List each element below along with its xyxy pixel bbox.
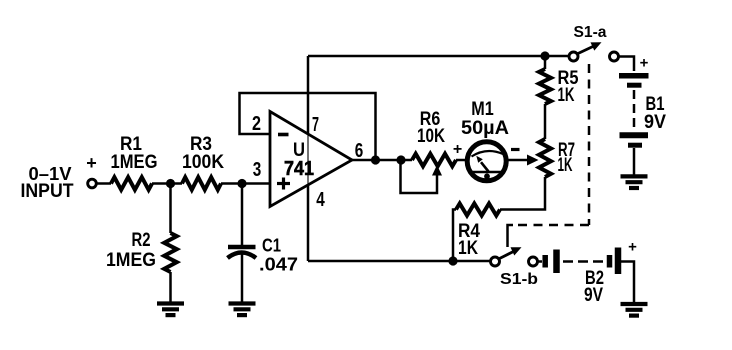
node junction R3/C1/pin3 bbox=[237, 179, 246, 188]
wire pin 4 down bbox=[307, 185, 310, 261]
svg-text:+: + bbox=[453, 141, 462, 158]
op-amp plus input mark bbox=[277, 178, 290, 190]
wire input terminal to R1 bbox=[97, 182, 111, 185]
svg-text:10K: 10K bbox=[417, 126, 445, 147]
wire pin7/pin4 through body bbox=[307, 134, 309, 184]
ground under B2 bbox=[621, 304, 648, 316]
svg-text:+: + bbox=[86, 153, 97, 173]
svg-text:M1: M1 bbox=[471, 99, 494, 120]
label R7 1K bbox=[558, 140, 576, 176]
ground under R2 bbox=[157, 304, 184, 316]
node bottom rail / R4 bbox=[448, 256, 457, 265]
ground under B1 bbox=[621, 176, 648, 188]
svg-text:1K: 1K bbox=[458, 238, 478, 259]
wire pin 7 to supply rail bbox=[307, 56, 310, 133]
wire C1 to ground bbox=[241, 254, 244, 303]
svg-text:.047: .047 bbox=[259, 255, 298, 275]
svg-text:S1-a: S1-a bbox=[574, 24, 607, 41]
label R2 1MEG bbox=[106, 230, 156, 271]
svg-text:1K: 1K bbox=[558, 155, 573, 176]
linkage dashed horizontal bbox=[512, 224, 589, 227]
battery B1 bbox=[619, 76, 649, 145]
wire R7 to R4 bbox=[500, 177, 545, 210]
wire R6 bypass loop bbox=[401, 160, 438, 193]
svg-text:R2: R2 bbox=[132, 230, 151, 251]
label R4 1K bbox=[458, 221, 480, 259]
svg-text:1MEG: 1MEG bbox=[111, 152, 158, 173]
wire op-amp output bbox=[352, 159, 412, 162]
capacitor C1 bbox=[228, 247, 257, 258]
input label 0-1V INPUT bbox=[21, 164, 74, 202]
meter M1 polarity minus bbox=[511, 148, 520, 151]
battery B2 bbox=[545, 248, 618, 275]
wire B1 to ground bbox=[633, 148, 636, 175]
wire R4 to bottom rail bbox=[453, 210, 456, 262]
wire R6 to meter bbox=[456, 159, 466, 162]
svg-text:+: + bbox=[628, 239, 637, 256]
svg-text:741: 741 bbox=[284, 158, 314, 180]
wire R2 to ground bbox=[169, 272, 172, 303]
label R1 1MEG bbox=[111, 134, 158, 173]
wire R3 to op-amp pin 3 bbox=[221, 182, 270, 185]
resistor R4 bbox=[456, 204, 500, 216]
svg-text:100K: 100K bbox=[182, 152, 224, 173]
svg-text:1K: 1K bbox=[558, 85, 575, 106]
meter M1 body bbox=[467, 142, 506, 181]
wire R1 to R3 bbox=[152, 182, 182, 185]
node feedback junction bbox=[371, 155, 380, 164]
wire bottom rail bbox=[308, 260, 490, 263]
node supply rail / R5 bbox=[540, 51, 549, 60]
R7 wiper arrow bbox=[527, 155, 539, 166]
wire S1-a to B1 bbox=[620, 57, 635, 72]
label C1 .047 bbox=[259, 236, 298, 275]
wire node to C1 bbox=[241, 184, 244, 247]
wire rail to R5 bbox=[544, 56, 547, 69]
input terminal bbox=[88, 179, 97, 188]
svg-text:3: 3 bbox=[253, 159, 262, 181]
ground under C1 bbox=[229, 304, 256, 316]
label M1 50uA bbox=[461, 99, 509, 139]
svg-text:50µA: 50µA bbox=[461, 118, 509, 139]
label B2 9V bbox=[584, 268, 604, 306]
resistor R5 bbox=[539, 69, 551, 104]
op-amp U1 741 triangle bbox=[270, 112, 352, 207]
node junction R1/R2/R3 bbox=[166, 179, 175, 188]
switch S1-b bbox=[491, 247, 538, 266]
node R6 bypass junction bbox=[396, 155, 405, 164]
wire S1-b to B2 bbox=[539, 260, 543, 263]
label R5 1K bbox=[558, 68, 579, 106]
wire node to R2 bbox=[169, 184, 172, 234]
svg-text:S1-b: S1-b bbox=[500, 271, 538, 288]
resistor R1 bbox=[111, 177, 152, 190]
wire pin 2 feedback loop from output bbox=[240, 93, 376, 160]
rheostat R6 bbox=[412, 154, 456, 167]
linkage dashed S1-a vertical bbox=[588, 64, 591, 225]
svg-text:4: 4 bbox=[316, 189, 325, 211]
wire top supply rail to S1-a bbox=[308, 55, 568, 58]
svg-text:INPUT: INPUT bbox=[21, 181, 74, 202]
svg-text:1MEG: 1MEG bbox=[106, 250, 156, 271]
wire B2 to ground bbox=[621, 262, 634, 304]
svg-text:9V: 9V bbox=[644, 112, 666, 133]
label R3 100K bbox=[182, 134, 224, 173]
svg-text:9V: 9V bbox=[584, 285, 603, 306]
R6 wiper arrow bbox=[432, 165, 442, 176]
wire R5 to R7 bbox=[544, 104, 547, 139]
svg-text:7: 7 bbox=[312, 114, 319, 136]
label B1 9V bbox=[644, 94, 666, 133]
svg-text:+: + bbox=[640, 55, 649, 72]
linkage elbow to S1-b bbox=[508, 225, 514, 247]
wire meter to R7 wiper bbox=[508, 159, 528, 162]
op-amp minus input mark bbox=[278, 133, 289, 137]
label R6 10K bbox=[417, 109, 445, 147]
potentiometer R7 bbox=[539, 139, 551, 177]
label U 741 bbox=[284, 140, 314, 180]
svg-text:2: 2 bbox=[252, 113, 261, 135]
svg-text:C1: C1 bbox=[262, 236, 281, 256]
resistor R2 bbox=[164, 233, 177, 272]
svg-text:6: 6 bbox=[355, 140, 364, 162]
resistor R3 bbox=[182, 177, 221, 190]
switch S1-a bbox=[569, 42, 619, 61]
